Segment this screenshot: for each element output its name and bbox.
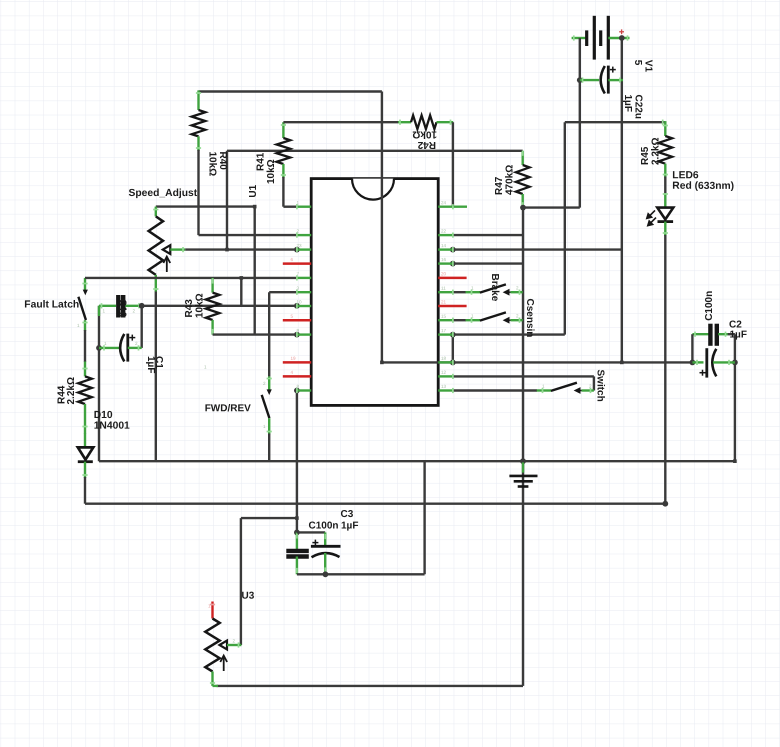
- svg-text:2: 2: [263, 381, 266, 386]
- svg-text:23: 23: [296, 243, 302, 248]
- svg-text:2: 2: [516, 286, 519, 291]
- svg-text:1: 1: [102, 309, 105, 314]
- capacitor C2 electrolytic: [692, 361, 703, 363]
- wire bottom row to U3: [217, 685, 524, 687]
- resistor R41: [282, 122, 284, 138]
- potentiometer Speed_Adjust: [155, 207, 157, 217]
- bendpoint: [253, 205, 257, 209]
- svg-text:9: 9: [296, 328, 299, 333]
- svg-text:R41: R41: [256, 152, 267, 171]
- wire battery-minus to capacitor C22u: [579, 38, 581, 80]
- svg-text:13: 13: [441, 384, 447, 389]
- svg-text:19: 19: [290, 356, 296, 361]
- U1 pin 5 (left, unconnected): [283, 319, 311, 322]
- wire row 461 main: [99, 460, 735, 462]
- wire pin14 row to battery column: [450, 247, 456, 253]
- svg-text:1: 1: [471, 286, 474, 291]
- svg-text:FWD/REV: FWD/REV: [205, 403, 251, 414]
- svg-text:Red (633nm): Red (633nm): [672, 181, 734, 192]
- junction C1 left: [96, 345, 102, 351]
- svg-text:10kΩ: 10kΩ: [266, 159, 277, 184]
- wire pin3 row and FWD/REV column: [269, 291, 297, 293]
- wire FWD/REV bottom to row461: [268, 434, 270, 462]
- svg-text:1: 1: [471, 314, 474, 319]
- wire pin17 row: [453, 333, 565, 335]
- battery plus marker: [619, 31, 624, 33]
- svg-text:R47: R47: [494, 176, 505, 195]
- U1 pin 9 (left): [297, 333, 311, 335]
- svg-text:6: 6: [290, 257, 293, 262]
- svg-text:18: 18: [441, 356, 447, 361]
- U1 pin 24 (right): [438, 205, 467, 207]
- U1 pin 10 (left): [297, 305, 311, 307]
- svg-text:3: 3: [296, 286, 299, 291]
- junction C3 top-left: [294, 530, 300, 536]
- junction C10 right: [139, 303, 145, 309]
- resistor R45: [664, 121, 666, 136]
- junction pin23: [294, 247, 300, 253]
- wire pot-top column down to pin9 row: [253, 207, 255, 335]
- wire column C10/C1 left x=99: [98, 306, 100, 461]
- U1 pin 18 (right): [438, 361, 453, 363]
- C3 plus marker: [312, 542, 318, 544]
- U1 pin 14 (right): [438, 248, 453, 250]
- op-amp/IC U1 body: [311, 179, 438, 406]
- svg-text:Switch: Switch: [595, 370, 606, 402]
- wire pin17 to pin18 link: [452, 335, 454, 363]
- wire D10 cathode down to row503: [84, 477, 86, 504]
- wire top horizontal net (R40 top to U1 interior): [199, 90, 382, 92]
- wire green corner C10 left: [98, 306, 100, 316]
- wire pin18 row (from U1 interior to C2): [382, 361, 693, 363]
- svg-text:1: 1: [296, 200, 299, 205]
- U1 notch: [352, 179, 394, 200]
- svg-text:R40: R40: [217, 152, 228, 171]
- wire wiper to U1 pin23: [170, 248, 185, 250]
- svg-text:470kΩ: 470kΩ: [505, 165, 516, 195]
- potentiometer U3: [211, 602, 213, 619]
- junction pin17: [450, 332, 456, 338]
- switch Csensing: [453, 319, 466, 321]
- wire battery-plus column down to pin18 row: [621, 38, 623, 362]
- wire ground column x=523: [522, 208, 524, 686]
- ground symbol: [522, 461, 524, 472]
- pot wiper triangle: [163, 245, 171, 254]
- svg-text:R42: R42: [417, 139, 436, 150]
- U1 pin 2 (left): [297, 234, 311, 236]
- wire R47-bottom node to battery-minus column: [523, 206, 580, 208]
- svg-text:10kΩ: 10kΩ: [195, 293, 206, 318]
- junction ground node: [520, 458, 526, 464]
- wire C2 left column: [691, 334, 693, 362]
- junction C3 bottom: [323, 571, 329, 577]
- bendpoint interior corner: [380, 361, 384, 365]
- LED LED6: [664, 193, 666, 207]
- svg-text:1: 1: [104, 341, 107, 346]
- U1 pin 15 (right): [438, 319, 453, 321]
- svg-text:8: 8: [296, 384, 299, 389]
- U1 pin 7 (left): [297, 277, 311, 279]
- svg-text:1N4001: 1N4001: [94, 421, 130, 432]
- wire column x=565 down to pin17 row: [564, 122, 566, 334]
- pot arrow: [166, 258, 168, 272]
- junction C22u left: [577, 77, 583, 83]
- svg-text:2: 2: [135, 341, 138, 346]
- resistor R43: [211, 278, 213, 293]
- svg-text:Brake: Brake: [489, 274, 500, 302]
- svg-text:Fault Latch: Fault Latch: [24, 300, 79, 311]
- wire R41 top to R42: [283, 121, 398, 123]
- svg-text:2: 2: [589, 384, 592, 389]
- wire pin22 row: [453, 234, 523, 236]
- svg-text:7: 7: [296, 271, 299, 276]
- wire through notch redrawn: [381, 92, 383, 363]
- svg-text:1: 1: [204, 365, 207, 370]
- svg-text:1µF: 1µF: [729, 330, 746, 341]
- battery V1: [572, 37, 587, 39]
- svg-text:V1: V1: [643, 60, 654, 73]
- wire R40 bottom to U1 pin2: [197, 150, 199, 235]
- svg-text:R43: R43: [184, 299, 195, 318]
- wire U3 wiper link row518: [241, 517, 297, 519]
- svg-text:2: 2: [516, 314, 519, 319]
- svg-text:12: 12: [441, 370, 447, 375]
- bendpoint wiper column join: [225, 248, 229, 252]
- wire C2 right column: [734, 334, 736, 461]
- resistor R40: [197, 90, 199, 110]
- wire C3 bottom row: [297, 573, 425, 575]
- svg-text:LED6: LED6: [672, 170, 699, 181]
- wire pin16 row: [450, 261, 456, 267]
- U1 pin 13 (right): [438, 389, 453, 391]
- switch Switch: [453, 389, 537, 391]
- wire R42 to U1 pin24: [452, 122, 454, 207]
- svg-text:C10: C10: [117, 299, 128, 318]
- capacitor C22u electrolytic: [580, 79, 599, 81]
- wire C3 top row to electrolytic: [297, 531, 325, 533]
- svg-text:1µF: 1µF: [145, 356, 156, 373]
- svg-text:21: 21: [441, 300, 447, 305]
- U1 pin 21 (right, unconnected): [438, 305, 466, 308]
- switch Brake: [453, 291, 466, 293]
- svg-text:5: 5: [290, 314, 293, 319]
- resistor R44: [84, 362, 86, 377]
- C1 plus marker: [129, 337, 135, 339]
- svg-text:U1: U1: [248, 184, 259, 197]
- U1 pin 6 (left, unconnected): [283, 262, 311, 265]
- capacitor C3 electrolytic 1uF: [324, 532, 326, 546]
- C22u plus marker: [610, 69, 616, 71]
- svg-text:2.2kΩ: 2.2kΩ: [66, 377, 77, 404]
- wire wiper column up to R47 row: [226, 151, 228, 250]
- svg-text:10kΩ: 10kΩ: [412, 129, 437, 140]
- wire pot top row: [156, 205, 255, 207]
- junction LED bottom / row503: [662, 501, 668, 507]
- svg-text:C100n: C100n: [308, 521, 338, 532]
- svg-text:2: 2: [232, 639, 235, 644]
- capacitor C1 electrolytic: [99, 347, 121, 349]
- wire U3 wiper column x=240.9: [240, 518, 242, 645]
- svg-text:15: 15: [441, 314, 447, 319]
- svg-text:2: 2: [132, 309, 135, 314]
- junction R47 bottom: [520, 205, 526, 211]
- wire C10 right column down to C1: [140, 306, 142, 348]
- U1 pin 11 (right): [438, 291, 453, 293]
- svg-text:1µF: 1µF: [341, 521, 358, 532]
- wire column x=241.3: [240, 278, 242, 306]
- svg-text:4: 4: [290, 370, 293, 375]
- svg-text:17: 17: [441, 328, 447, 333]
- U1 pin 8 (left): [297, 389, 311, 391]
- junction pin18: [450, 360, 456, 366]
- wire row 277.9 fault-latch to pin7: [85, 277, 297, 279]
- U1 pin 3 (left): [297, 291, 311, 293]
- wire C10/pin10 row: [142, 305, 297, 307]
- svg-text:10: 10: [296, 300, 302, 305]
- svg-text:U3: U3: [241, 591, 254, 602]
- svg-text:16: 16: [441, 257, 447, 262]
- svg-text:1µF: 1µF: [622, 95, 633, 112]
- resistor R42: [398, 121, 411, 123]
- svg-text:11: 11: [441, 286, 446, 291]
- U1 pin 19 (left, unconnected): [283, 361, 311, 364]
- svg-text:R45: R45: [640, 146, 651, 165]
- U1 pin 4 (left, unconnected): [283, 375, 311, 378]
- wire row 503.7 from D10 to LED column: [85, 503, 665, 505]
- wire pin8 column down to C3: [294, 388, 300, 394]
- svg-text:1: 1: [542, 384, 545, 389]
- svg-text:20: 20: [441, 271, 447, 276]
- svg-text:24: 24: [441, 200, 447, 205]
- svg-text:1: 1: [208, 604, 211, 609]
- bendpoint row461 right end: [733, 459, 737, 463]
- wire R45 to LED6: [664, 177, 666, 195]
- junction pin9: [294, 332, 300, 338]
- svg-text:C3: C3: [340, 509, 353, 520]
- wire pin12 row to Switch: [453, 375, 594, 377]
- wire LED bottom column to row503: [664, 235, 666, 504]
- junction battery plus: [619, 35, 625, 41]
- svg-text:2.2kΩ: 2.2kΩ: [651, 138, 662, 165]
- svg-text:C22u: C22u: [633, 95, 644, 119]
- bendpoint on pin18 row: [620, 361, 624, 365]
- U1 pin 22 (right): [438, 234, 453, 236]
- U1 pin 1 (left): [297, 205, 311, 207]
- svg-text:Speed_Adjust: Speed_Adjust: [128, 188, 197, 199]
- U1 pin 20 (right, unconnected): [438, 277, 466, 280]
- wire pot bottom column to row461: [155, 292, 157, 462]
- U1 pin 12 (right): [438, 375, 453, 377]
- capacitor C100n (C2 group) ceramic: [692, 333, 709, 335]
- wire column x=424.6 up to row461: [423, 461, 425, 574]
- svg-text:1: 1: [263, 424, 266, 429]
- resistor R47: [522, 151, 524, 165]
- wire Fault Latch to R44: [84, 330, 86, 362]
- wire U3 wiper lead: [227, 644, 241, 646]
- svg-text:14: 14: [441, 243, 447, 248]
- svg-text:5: 5: [632, 60, 643, 66]
- wire row to R47 top: [227, 150, 523, 152]
- bendpoint R43 link column: [240, 276, 244, 280]
- svg-text:1: 1: [77, 323, 80, 328]
- wire U3 bottom lead: [211, 672, 213, 686]
- switch FWD/REV: [268, 376, 270, 391]
- capacitor C3 ceramic C100n: [296, 532, 298, 550]
- svg-text:22: 22: [441, 229, 447, 234]
- U1 pin 16 (right): [438, 262, 453, 264]
- wire R43 bottom to pin9: [213, 333, 297, 335]
- svg-text:Csensin: Csensin: [524, 299, 535, 338]
- U1 pin 23 (left): [297, 248, 311, 250]
- capacitor C10 ceramic: [99, 305, 116, 307]
- C2 plus marker: [700, 372, 706, 374]
- wire R45 top row: [565, 121, 666, 123]
- diode D10: [84, 433, 86, 448]
- U1 pin 17 (right): [438, 333, 453, 335]
- LED light arrows: [647, 210, 656, 225]
- svg-text:C100n: C100n: [704, 291, 715, 321]
- wire R41 bottom to U1 pin1: [282, 177, 284, 207]
- svg-text:10kΩ: 10kΩ: [207, 152, 218, 177]
- svg-text:2: 2: [296, 229, 299, 234]
- junction pin10: [294, 303, 300, 309]
- svg-text:D10: D10: [94, 410, 113, 421]
- switch Fault Latch: [84, 278, 86, 290]
